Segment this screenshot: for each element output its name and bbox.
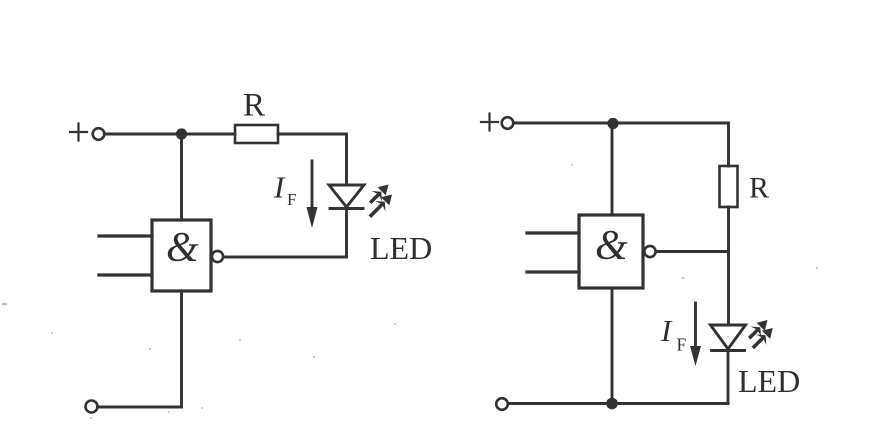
inversion bubble of U1 (212, 251, 223, 262)
wire: input stub 1 of U2 (527, 231, 579, 234)
terminal + (right circuit positive supply) (481, 114, 513, 131)
node: right top junction dot (607, 118, 618, 129)
label IF forward current (right circuit) (660, 313, 687, 355)
wire: supply pin from top rail into U2 (611, 124, 614, 216)
wire: LED cathode down to output line (left circuit) (345, 209, 348, 258)
terminal + (left circuit positive supply) (70, 124, 104, 141)
wire: LED cathode to bottom rail (right circuit) (727, 351, 730, 404)
terminal circle bottom (left circuit) (86, 401, 98, 413)
wire: bottom rail (left circuit) (98, 406, 182, 409)
svg-text:LED: LED (370, 230, 432, 266)
svg-text:LED: LED (738, 363, 800, 399)
arrow: forward-current direction (left circuit) (307, 161, 318, 228)
svg-text:I: I (660, 313, 673, 348)
emission arrow 2 of LED (left circuit) (371, 195, 392, 216)
wire: gate output to LED branch (left circuit) (224, 256, 347, 259)
svg-text:R: R (749, 172, 769, 205)
svg-text:F: F (677, 335, 687, 355)
inversion bubble of U2 (644, 246, 655, 257)
wire: ground pin from U2 to bottom rail (611, 288, 614, 404)
label IF forward current (left circuit) (273, 170, 296, 210)
wire: ground pin from U1 to bottom rail (180, 291, 183, 407)
wire: gate output to resistor-LED branch (right circuit) (656, 250, 729, 253)
node: bottom junction dot (right circuit) (606, 398, 618, 410)
svg-text:R: R (243, 88, 265, 124)
resistor R (left circuit) (235, 125, 278, 143)
wire: supply pin from top rail into U1 (180, 134, 183, 220)
LED D1 (left circuit) (329, 185, 364, 209)
emission arrow 1 of LED (left circuit) (372, 185, 389, 202)
wire: right top rail from + terminal to resistor corner (514, 123, 729, 166)
terminal circle bottom (right circuit) (496, 398, 508, 410)
emission arrow 1 of LED (right circuit) (751, 320, 768, 337)
wire: input stub 1 of U1 (99, 234, 152, 237)
arrow: forward-current direction (right circuit) (690, 303, 701, 366)
wire: input stub 2 of U2 (527, 270, 579, 273)
wire: left top rail from + terminal to resistor (105, 133, 236, 136)
resistor R (right circuit) (720, 166, 738, 207)
node: left top junction dot (176, 128, 187, 139)
wire: resistor to LED anode corner (left circuit) (278, 134, 347, 185)
svg-text:I: I (273, 170, 286, 205)
LED D2 (right circuit) (711, 325, 746, 351)
wire: input stub 2 of U1 (99, 273, 152, 276)
svg-text:&: & (166, 225, 199, 271)
emission arrow 2 of LED (right circuit) (754, 328, 773, 347)
wire: bottom rail (right circuit) (508, 402, 728, 405)
svg-text:&: & (595, 223, 628, 269)
NAND gate U1 (left circuit) (152, 220, 211, 291)
NAND gate U2 (right circuit) (579, 215, 643, 288)
svg-text:F: F (287, 190, 296, 209)
wire: resistor bottom to LED anode (right circuit) (727, 207, 730, 325)
